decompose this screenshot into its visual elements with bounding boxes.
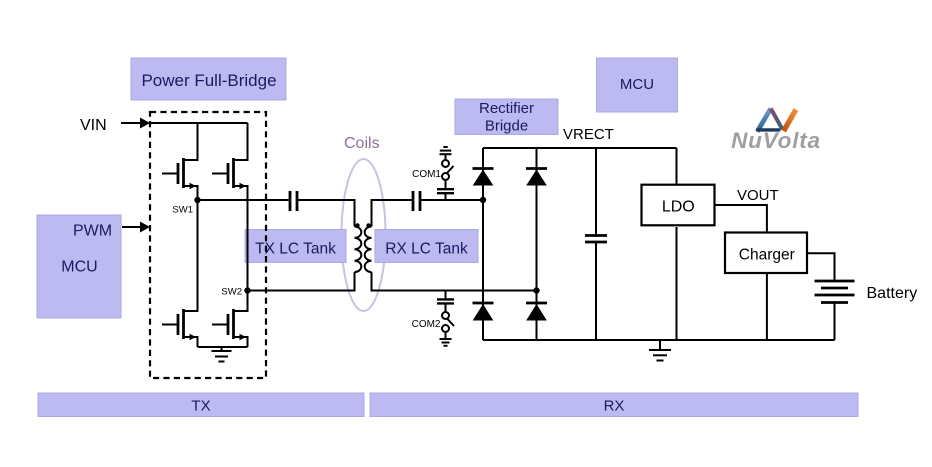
- transistor Q1 (high side left): [162, 123, 198, 200]
- wire: VRECT top rail: [483, 147, 677, 149]
- capacitor C2 (RX series): [413, 191, 420, 211]
- svg-text:COM2: COM2: [412, 319, 441, 330]
- svg-text:TX: TX: [191, 398, 210, 415]
- capacitor C1 (TX series): [290, 191, 297, 211]
- label box: TX LC Tank: [245, 230, 346, 263]
- svg-text:Rectifier: Rectifier: [479, 100, 534, 117]
- wire: ground bottom rail: [483, 339, 835, 341]
- wire: Charger to battery: [807, 253, 835, 281]
- svg-text:TX LC Tank: TX LC Tank: [255, 241, 336, 258]
- node SW1: [172, 197, 200, 216]
- svg-text:Battery: Battery: [867, 285, 918, 302]
- svg-text:VIN: VIN: [80, 117, 107, 134]
- LDO box U1: [642, 185, 715, 226]
- full-bridge dashed enclosure: [150, 112, 266, 378]
- label box: RX LC Tank: [375, 230, 478, 263]
- diode D1: [473, 169, 494, 186]
- svg-text:NuVolta: NuVolta: [731, 128, 821, 153]
- svg-text:VRECT: VRECT: [563, 126, 614, 143]
- TX coil phase dot: [355, 223, 359, 227]
- wire: PWM input arrow: [122, 222, 150, 233]
- wire: bridge sources to ground: [198, 346, 248, 348]
- svg-text:MCU: MCU: [61, 259, 97, 276]
- wire: Charger to ground rail: [766, 273, 768, 340]
- node: AC2 junction: [533, 287, 539, 293]
- NuVolta logo mark: [756, 109, 796, 132]
- svg-text:SW2: SW2: [221, 287, 242, 298]
- ground (full-bridge): [212, 347, 232, 362]
- wire: VIN top rail: [150, 122, 248, 124]
- inductor: RX coil: [365, 227, 372, 273]
- wire: C2 to rectifier: [420, 199, 483, 201]
- svg-text:LDO: LDO: [662, 199, 695, 216]
- diode D2: [526, 169, 547, 186]
- TX section bar: [38, 393, 364, 417]
- wire: C1 to TX coil: [297, 200, 355, 227]
- node: AC1 junction: [480, 197, 486, 203]
- transistor Q3 (low side left): [162, 200, 198, 348]
- wire: VIN input arrow: [121, 118, 150, 129]
- transistor Q2 (high side right): [212, 123, 248, 291]
- svg-text:Coils: Coils: [344, 135, 380, 152]
- svg-text:MCU: MCU: [620, 76, 654, 93]
- wire: RX coil top to C2: [372, 200, 414, 227]
- RX section bar: [370, 393, 858, 417]
- switch COM2: [412, 291, 454, 346]
- svg-text:RX LC Tank: RX LC Tank: [385, 241, 468, 258]
- svg-text:VOUT: VOUT: [737, 187, 779, 204]
- svg-text:SW1: SW1: [172, 205, 193, 216]
- coils coupling ellipse: [342, 159, 386, 311]
- battery BT1: [815, 281, 855, 340]
- svg-text:RX: RX: [604, 398, 625, 415]
- rectifier bridge left leg: [482, 148, 484, 340]
- svg-text:COM1: COM1: [412, 169, 441, 180]
- capacitor C3 (VRECT filter): [585, 148, 607, 340]
- label box: Rectifier Brigde: [455, 99, 558, 135]
- RX coil phase dot: [366, 223, 370, 227]
- Charger box U2: [725, 233, 807, 274]
- label box: PWM MCU: [37, 215, 121, 318]
- svg-text:Power Full-Bridge: Power Full-Bridge: [141, 71, 276, 90]
- wire: LDO to ground rail: [676, 227, 678, 340]
- svg-text:PWM: PWM: [73, 223, 112, 240]
- label box: MCU (RX): [597, 58, 678, 112]
- switch COM1: [412, 147, 454, 200]
- diode D3: [473, 303, 494, 321]
- wire: TX coil to SW2: [248, 272, 355, 290]
- transistor Q4 (low side right): [212, 291, 248, 348]
- ground (RX rail): [649, 340, 671, 361]
- wire: RX coil bottom to rectifier: [372, 272, 537, 290]
- inductor: TX coil: [355, 227, 362, 273]
- rectifier bridge right leg: [536, 148, 538, 340]
- wire: LDO to Charger: [715, 205, 767, 233]
- wire: rail to LDO: [676, 148, 678, 185]
- wire: SW1 to C1: [198, 199, 291, 201]
- diode D4: [526, 303, 547, 321]
- svg-text:Brigde: Brigde: [485, 118, 528, 135]
- svg-text:Charger: Charger: [739, 247, 795, 264]
- label box: Power Full-Bridge: [131, 58, 286, 100]
- node SW2: [221, 287, 250, 298]
